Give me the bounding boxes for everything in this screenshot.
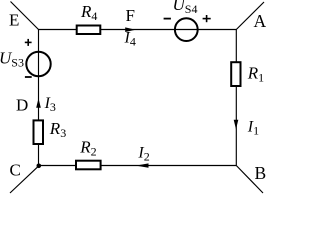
svg-text:C: C [10,161,21,180]
resistor R2 [76,161,101,170]
svg-text:B: B [255,163,267,183]
resistor R4 [77,26,101,35]
wire terminal stub E [11,2,39,30]
voltage source US4 [175,18,198,41]
svg-text:E: E [9,11,19,30]
current I1 arrow [234,120,239,130]
US4 plus sign [203,15,211,22]
US4 minus sign [164,18,171,20]
junction node C dot [37,164,42,169]
svg-text:D: D [16,96,28,115]
current I2 arrow [136,163,149,167]
svg-text:A: A [254,11,267,31]
wire right (A to B) [235,30,237,166]
svg-text:US4: US4 [173,0,198,16]
resistor R1 [231,62,240,86]
svg-text:F: F [126,6,135,25]
wire terminal stub A [236,2,264,30]
wire terminal stub C [10,166,39,193]
resistor R3 [34,120,44,144]
wire terminal stub B [236,166,263,194]
wire bottom (C to B) [39,165,237,167]
US3 plus sign [25,39,32,46]
wire top (E to A) [39,29,237,31]
wire left (E to C) [38,30,40,166]
current I4 arrow [125,27,135,32]
US3 minus sign [25,76,32,78]
voltage source US3 [26,52,50,76]
current I3 arrow [36,98,41,108]
